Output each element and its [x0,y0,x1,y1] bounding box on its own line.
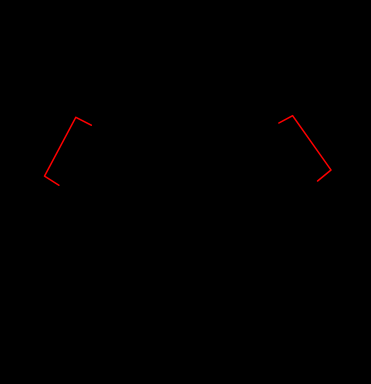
highlighted bond group left (red polyline) [45,117,92,185]
highlighted bond group right (red polyline) [279,116,331,181]
